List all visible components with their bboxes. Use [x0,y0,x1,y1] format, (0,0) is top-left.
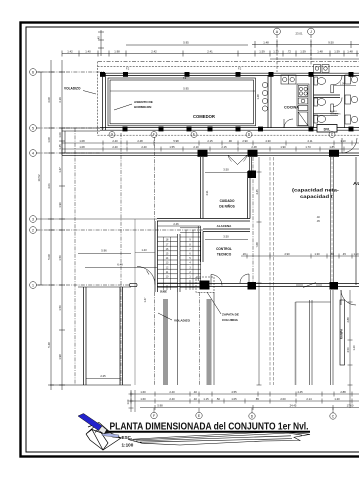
grid line 3 [36,218,157,220]
left terrace wall 2 [120,287,123,385]
bubble stems [154,408,333,413]
svg-text:.40: .40 [193,397,197,401]
kitchen counter appliances [297,84,309,126]
small dim .40 .45 right [316,216,320,223]
svg-text:3.19: 3.19 [58,97,62,103]
svg-text:1.50: 1.50 [58,305,62,311]
grid bubble J (top) [308,28,315,35]
svg-text:2.88: 2.88 [340,390,346,394]
staircase [155,221,201,293]
svg-text:4.01: 4.01 [47,183,51,189]
toilet 1 [314,77,326,85]
grid dash-dot x=121 [120,133,122,385]
gray line right [295,302,297,385]
svg-text:1.48: 1.48 [263,41,269,45]
column F.2 labels [126,68,242,81]
svg-text:1.98: 1.98 [58,354,62,360]
svg-text:7.68: 7.68 [255,242,259,248]
svg-text:2.25: 2.25 [100,374,106,378]
svg-text:1.47: 1.47 [58,167,62,173]
gray column bar 2 [207,299,212,385]
left terrace wall 1 [84,287,87,385]
svg-text:VOLADIZO: VOLADIZO [64,87,81,91]
counter wall comedor/cocina [268,75,271,127]
svg-text:1.20: 1.20 [334,397,340,401]
svg-text:1.05: 1.05 [231,397,237,401]
svg-text:.50: .50 [216,397,220,401]
bath dim 1.00 [334,85,356,87]
bathroom wall horizontal [314,95,341,98]
walkway edge left of comedor [62,128,100,155]
comedor bottom wall [100,128,359,131]
svg-text:PLANTA DIMENSIONADA del CONJUN: PLANTA DIMENSIONADA del CONJUNTO 1er Nvl… [110,422,309,433]
grid dash-dot x=75 [74,128,76,385]
svg-text:1.48: 1.48 [317,49,323,53]
svg-text:17.60: 17.60 [347,404,354,408]
dim chain row 2 [62,51,359,57]
svg-text:3.50: 3.50 [223,168,229,172]
svg-text:1.42: 1.42 [67,49,73,53]
svg-text:COMEDOR: COMEDOR [193,114,215,119]
svg-text:4.50: 4.50 [346,347,350,353]
svg-text:1.08: 1.08 [79,139,85,143]
stair mid stringer [178,234,181,292]
svg-text:.45: .45 [342,252,346,256]
porch step line [296,301,331,303]
svg-text:2.90: 2.90 [242,139,248,143]
stair direction lines [166,285,168,290]
grid bubble 5 [30,125,37,132]
svg-text:1.59: 1.59 [334,49,340,53]
bath side wall [344,75,346,127]
svg-text:3: 3 [32,217,34,221]
svg-text:CUIDADO: CUIDADO [220,199,235,203]
svg-text:1.08: 1.08 [47,137,51,143]
door arc right of column F [211,275,222,286]
pencil blue body [78,414,102,431]
stair step numbers right [189,239,191,279]
label FLUXO HOMBRES [330,111,341,116]
svg-text:E: E [193,133,195,137]
grid line 4 [36,152,100,154]
svg-text:1.00: 1.00 [58,132,62,138]
svg-text:4.45: 4.45 [297,390,303,394]
title underline [103,431,310,433]
svg-text:1.90: 1.90 [58,202,62,208]
overall vertical dim x=41 [38,72,44,285]
svg-text:10.52: 10.52 [37,174,41,181]
stair number rails [164,230,194,290]
dim chain row y=401 [130,399,359,404]
svg-text:4.31: 4.31 [205,190,209,196]
compass outline [86,423,121,451]
svg-text:23.01: 23.01 [296,31,303,35]
svg-text:6: 6 [32,70,34,74]
svg-text:2.46: 2.46 [173,222,179,226]
svg-text:COLUMNA: COLUMNA [222,318,239,322]
walkway baseline [50,384,131,386]
svg-text:HORMIGON: HORMIGON [134,105,152,109]
svg-text:1.48: 1.48 [256,94,260,100]
svg-text:1.40: 1.40 [85,49,91,53]
svg-text:2.15: 2.15 [221,145,227,149]
vertical dim chain x=51 [48,60,54,390]
vertical mini dim chain x=101 [98,30,104,56]
door arc lower left [137,267,155,285]
svg-text:1.73: 1.73 [305,145,311,149]
svg-text:5.08: 5.08 [47,254,51,260]
svg-text:1.50: 1.50 [58,255,62,261]
svg-text:2.40: 2.40 [169,390,175,394]
svg-text:1.15: 1.15 [203,397,209,401]
svg-text:2.42: 2.42 [151,49,157,53]
dim 1.43 line [135,252,155,254]
stair left wall [155,221,158,292]
svg-text:ASIENTO DE: ASIENTO DE [134,100,153,104]
svg-text:2.48: 2.48 [251,145,257,149]
canopy line right [270,58,359,60]
concrete bench (asiento de hormigon) [108,78,256,126]
svg-text:1.59: 1.59 [259,49,265,53]
bubble row under upper block [109,132,335,138]
column bottom F [200,281,210,290]
bottom grid bubble E [196,412,202,418]
window sill marks [296,283,322,288]
kitchen sink counter [281,75,296,84]
svg-text:5.95: 5.95 [183,41,189,45]
toilet 3 [314,115,326,123]
bath door arc 2 [333,98,342,107]
column bottom D [248,282,257,290]
fixtures right edge [345,75,358,124]
svg-text:5.98: 5.98 [157,404,163,408]
svg-text:1.00: 1.00 [127,399,130,404]
bath door arc 1 [333,76,342,85]
svg-text:2.10: 2.10 [193,145,199,149]
svg-text:1.85: 1.85 [329,145,335,149]
svg-text:ESC.: ESC. [122,435,133,440]
door arc bottom right [341,290,356,305]
svg-text:1: 1 [32,283,34,287]
svg-text:2.00: 2.00 [280,397,286,401]
grid dash-dot x=199.5 lower [199,292,201,385]
comedor left wall [103,73,106,130]
voladizo dash-dot roof line [98,61,359,63]
voladizo line x=177.5 [177,292,179,385]
grid line 1 [36,284,129,286]
stair step numbers left [166,239,169,279]
urinal row top [314,65,330,73]
pencil secondary light blue [102,433,119,438]
svg-text:1.98: 1.98 [114,49,120,53]
total dim row y=407.5 [140,405,359,410]
pencil tip [99,426,111,434]
alacena walls [157,219,250,232]
svg-text:2.90: 2.90 [284,252,290,256]
right vertical dim chain x=350 [348,290,353,408]
svg-text:2.40: 2.40 [112,145,118,149]
door arc top right aula [342,138,357,153]
bathroom divider 2 [314,114,339,116]
wall stub under column D [250,157,252,171]
svg-text:2: 2 [32,228,34,232]
svg-text:6.49: 6.49 [117,263,123,267]
svg-text:2.41: 2.41 [207,49,213,53]
svg-text:5.96: 5.96 [101,249,107,253]
grid bubble 3 [30,216,37,223]
bar stools [262,82,267,111]
dim line x=135 [134,219,136,385]
grid line J vertical dash [310,35,312,65]
grid line 5 [36,127,104,129]
grid line 2 [36,229,203,231]
svg-text:1.90: 1.90 [280,145,286,149]
grid bubble 6 [30,69,37,76]
comedor top wall [100,73,359,75]
svg-text:1.48: 1.48 [347,49,353,53]
svg-text:2.40: 2.40 [112,139,118,143]
svg-text:.40: .40 [316,216,320,219]
grid bubble 2 [30,227,37,234]
svg-text:4.45: 4.45 [255,189,259,195]
svg-text:ALACENA: ALACENA [217,224,232,228]
cuidado de ninos left wall [201,157,204,219]
aula right wall [331,157,334,283]
grid bubble 1 [30,282,37,289]
svg-text:2.15: 2.15 [207,139,213,143]
left mini vertical chain [129,390,136,412]
svg-text:1.30: 1.30 [273,49,279,53]
svg-text:5.98: 5.98 [173,139,179,143]
svg-text:capacidad t: capacidad t [300,195,333,200]
svg-text:2.14: 2.14 [306,397,312,401]
svg-text:4.30: 4.30 [265,139,271,143]
lower verticals right pair [310,300,313,385]
bottom grid bubble D [249,413,255,419]
svg-text:1.59: 1.59 [300,49,306,53]
svg-text:F: F [153,414,155,418]
grid line 6 [36,71,104,73]
zapata dashed rect [196,277,214,293]
column at grid C top [329,150,339,157]
column right mid [248,171,256,179]
svg-text:1.30: 1.30 [314,252,320,256]
svg-text:J: J [310,30,312,34]
stair treads left flight [158,237,178,288]
svg-text:4: 4 [32,151,34,155]
svg-text:F: F [153,133,155,137]
svg-text:1.45: 1.45 [58,144,62,150]
extra treads right flight [180,228,201,233]
svg-text:SUBE: SUBE [160,290,167,293]
voladizo dashed overhang line left [97,62,99,136]
svg-text:1.43: 1.43 [141,248,147,252]
column at grid D top [248,150,258,157]
toilet 2 [314,98,326,106]
svg-text:1.08: 1.08 [79,145,85,149]
svg-text:DE NIÑOS: DE NIÑOS [219,204,234,209]
column bottom C [330,282,339,290]
stair top landing line [158,225,201,227]
bottom grid bubble C [330,413,336,419]
vertical dim chain x=62 [59,60,65,390]
dim chain row y=149 [62,147,359,152]
svg-text:CONTROL: CONTROL [216,247,232,251]
svg-text:.85: .85 [255,397,259,401]
bottom grid bubble F [151,412,157,418]
cuidado de ninos right wall [248,171,251,219]
grid bubble A (top) [274,28,281,35]
svg-text:TECNICO: TECNICO [217,253,232,257]
voladizo dashed overhang line top [98,66,359,68]
double door V into cuidado [228,155,238,164]
svg-text:2.48: 2.48 [137,139,143,143]
svg-text:1.47: 1.47 [143,297,147,303]
svg-text:9.50: 9.50 [328,41,334,45]
dim chain row y=394 [130,392,359,397]
swoosh arrow [128,432,310,446]
grid line A vertical dash [276,35,278,72]
svg-text:3.08: 3.08 [47,97,51,103]
stair right edge [198,226,201,281]
terrace top edge [78,286,131,288]
svg-text:1.60: 1.60 [140,397,146,401]
svg-text:.90: .90 [228,139,232,143]
expansion joint double dashed [270,157,274,385]
bathroom wall vertical [311,75,314,127]
gray column bar 1 [163,299,168,385]
svg-text:24.45: 24.45 [290,404,297,408]
columns on bottom wall [123,127,354,132]
ramp wall rect [340,300,345,365]
DVL label box [317,125,337,133]
svg-text:.20: .20 [242,252,246,256]
svg-text:1.60: 1.60 [140,390,146,394]
right edge vertical line [355,157,357,285]
svg-text:5.48: 5.48 [47,342,51,348]
svg-text:.45: .45 [316,220,320,223]
svg-text:1.20: 1.20 [352,345,356,351]
svg-text:3.50: 3.50 [223,235,229,239]
svg-text:.40: .40 [193,390,197,394]
kitchen door arc [284,119,293,128]
svg-text:RAMPA: RAMPA [340,328,344,339]
svg-text:5.95: 5.95 [183,87,189,91]
lower block top wall [62,153,359,155]
svg-text:2.40: 2.40 [169,397,175,401]
svg-text:.72: .72 [287,49,291,53]
wall below column C [331,290,334,385]
svg-text:1.55: 1.55 [169,145,175,149]
svg-text:2.88: 2.88 [346,317,350,323]
svg-text:1:100: 1:100 [122,443,134,448]
svg-text:2.11: 2.11 [307,139,313,143]
svg-text:DVL: DVL [324,127,331,131]
svg-text:ZAPATA DE: ZAPATA DE [222,313,239,317]
dim chain row y=143 [62,141,359,146]
bottom wall of lower block [157,284,359,287]
grid bubble 4 [30,150,37,157]
column at grid F top [198,150,208,157]
svg-text:5: 5 [32,126,34,130]
grid dash-dot x=154.5 [154,137,156,221]
svg-text:.45: .45 [97,36,101,40]
columns on top wall [100,72,354,77]
svg-text:4.55: 4.55 [231,390,237,394]
stair treads right flight [180,237,201,288]
voladizo line x=214 [213,292,215,385]
door arc aula left [240,274,249,283]
svg-text:2.40: 2.40 [141,145,147,149]
svg-text:VOLADIZO: VOLADIZO [174,319,191,323]
aula interior dim row y=256 [241,254,359,259]
control tecnico walls [201,232,204,263]
svg-text:1.10: 1.10 [340,139,346,143]
right dim chain x=259 [257,157,262,385]
grid dash-dot x=253 [252,157,254,283]
dim chain row 1 top right [252,41,359,48]
